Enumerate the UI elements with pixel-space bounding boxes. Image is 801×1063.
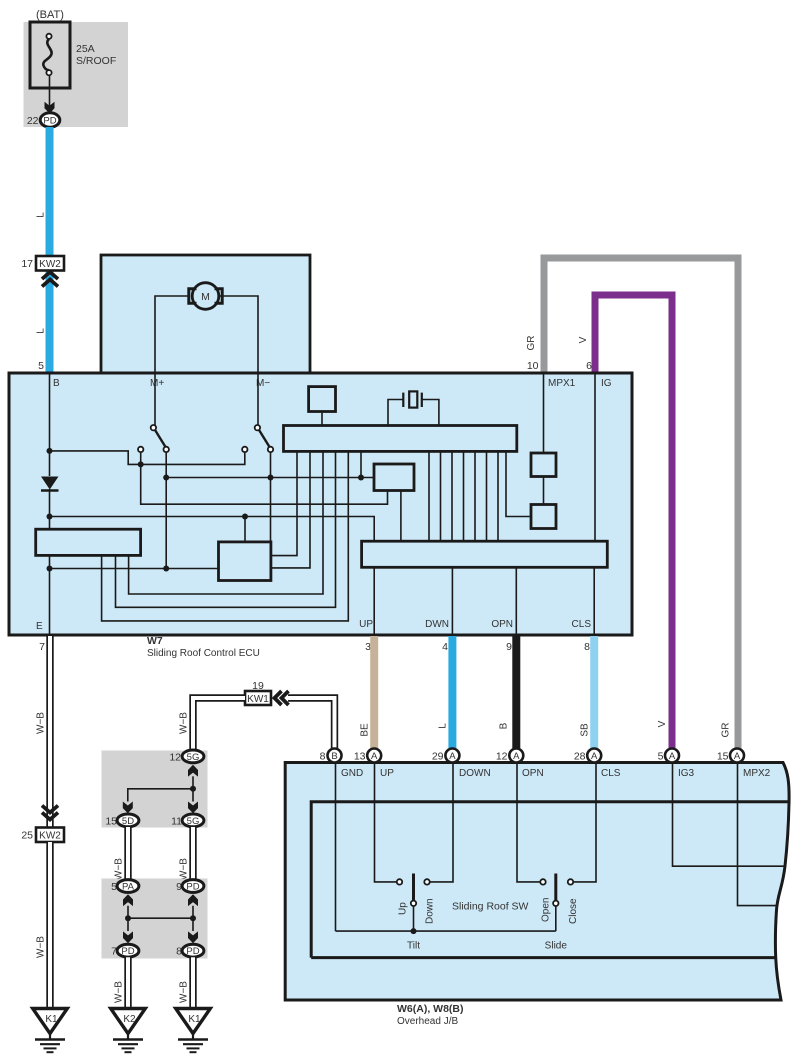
svg-text:W−B: W−B [114,858,125,880]
svg-text:B: B [499,722,510,729]
switch Slide (Open/Close) [540,874,573,932]
wire W-B PD to ground K2 [124,957,131,1008]
svg-text:DWN: DWN [425,619,449,630]
connector 17 KW2 [21,256,64,287]
wire U2 outputs to IC U1 [271,451,297,555]
connector 9 PD [176,880,204,893]
svg-text:M: M [201,291,210,303]
svg-text:IG3: IG3 [678,768,695,779]
connector 11 5G [171,814,204,827]
wire W-B from J/B GND to KW1 [288,698,335,749]
connector 5 A IG3 [658,749,679,763]
wire sense line to U3 [166,477,374,479]
connector 12 5G [169,750,204,763]
svg-text:A: A [449,751,456,762]
wire SB (sky blue) pin 8 CLS [590,636,598,749]
svg-text:A: A [513,751,520,762]
svg-text:15: 15 [105,815,117,827]
svg-text:W6(A), W8(B): W6(A), W8(B) [397,1003,464,1015]
svg-text:B: B [331,751,337,762]
svg-text:11: 11 [171,815,182,827]
wire GR (gray) to ECU pin 10 MPX1 [544,258,738,749]
svg-text:W−B: W−B [179,858,190,880]
svg-text:Open: Open [541,898,552,922]
wire IG internal [594,375,596,542]
svg-text:Down: Down [425,898,436,924]
svg-text:25: 25 [21,830,33,842]
svg-text:GR: GR [721,723,732,738]
svg-text:Up: Up [398,902,409,915]
wire U4 staircase to IC U1 [129,451,323,594]
logic block U3 [374,464,414,491]
wire outputs UP DWN OPN CLS [374,567,594,635]
svg-text:K2: K2 [123,1014,136,1025]
output driver block U6 [362,541,608,567]
wire E internal [49,555,51,635]
connector 22 PD [27,113,60,127]
connector 15 A MPX2 [717,749,744,763]
svg-text:L: L [36,212,47,218]
svg-text:SB: SB [580,723,591,737]
svg-text:K1: K1 [45,1014,58,1025]
wire BE (beige) pin 3 UP [370,636,378,749]
MPX block U8 [531,505,556,529]
svg-text:BE: BE [360,723,371,737]
microcomputer IC U1 [284,426,517,452]
connector 8 PD [176,944,204,957]
svg-text:10: 10 [527,360,539,372]
wire GND internal [335,764,337,931]
svg-text:9: 9 [506,641,512,653]
svg-text:L: L [438,723,449,729]
svg-text:25A: 25A [76,43,95,55]
svg-text:OPN: OPN [522,768,544,779]
wire motor leads [155,296,190,373]
svg-text:KW2: KW2 [39,259,61,270]
wire switch common to GND [336,930,556,932]
connector 19 KW1 [245,680,289,705]
J/B inner unit box [311,802,788,958]
svg-text:W−B: W−B [114,981,125,1003]
svg-text:Tilt: Tilt [407,941,420,952]
op ECU W7 Sliding Roof Control ECU box [9,373,632,635]
svg-text:A: A [591,751,598,762]
svg-text:UP: UP [380,768,394,779]
svg-text:W−B: W−B [36,712,47,734]
svg-text:W−B: W−B [179,981,190,1003]
svg-text:PD: PD [121,946,134,957]
svg-text:5D: 5D [122,816,134,827]
svg-text:Sliding Roof Control ECU: Sliding Roof Control ECU [147,648,260,659]
wire V (violet) to ECU pin 6 IG [595,295,672,749]
wire E bus to driver U2 [50,568,219,570]
connector 12 A OPN [496,749,523,763]
svg-text:GR: GR [526,336,537,351]
svg-text:5: 5 [38,360,44,372]
svg-text:V: V [657,720,668,727]
svg-text:Close: Close [568,898,579,924]
wire OPN internal [517,764,540,882]
svg-text:M+: M+ [150,378,164,389]
svg-text:5G: 5G [187,816,200,827]
svg-text:PD: PD [186,946,199,957]
wire U3 to output driver U6 [400,491,402,542]
sliding roof motor housing [101,255,310,373]
ECU pin numbers bottom [39,641,590,653]
wire UP internal [375,764,397,882]
svg-text:12: 12 [496,750,508,762]
svg-text:5G: 5G [187,752,200,763]
wire W-B 5D to PA [124,827,131,879]
wire MPX2 internal [738,764,777,906]
diode D1 [41,477,59,490]
ECU terminal labels [36,378,612,632]
svg-text:W7: W7 [147,635,163,647]
connector 7 PD [111,944,139,957]
svg-text:CLS: CLS [572,619,592,630]
svg-text:(BAT): (BAT) [36,9,64,21]
svg-text:GND: GND [341,768,363,779]
wire W-B from ECU pin 7 E [46,636,53,827]
wire W-B to ground K1 [46,842,53,1009]
svg-text:PD: PD [186,881,199,892]
svg-text:4: 4 [442,641,448,653]
svg-text:28: 28 [574,750,586,762]
MPX block U7 [531,453,556,477]
wire splice 2 [127,906,129,931]
fuse 25A S/ROOF [30,22,116,88]
connector 15 5D [105,814,139,827]
relay contact M+ [154,373,156,425]
wire W-B KW1 to connector 12 5G [193,698,245,750]
wire B internal bus [49,373,51,476]
svg-text:DOWN: DOWN [459,768,491,779]
crystal X1 [388,391,439,425]
svg-text:V: V [578,336,589,343]
svg-text:5: 5 [658,750,664,762]
connector 5 PA [111,880,139,893]
junction block gray box 1 [102,751,208,828]
switch Tilt (Up/Down) [397,874,430,932]
svg-text:A: A [734,751,741,762]
svg-text:8: 8 [584,641,590,653]
svg-text:17: 17 [21,258,33,270]
connector 13 A UP [354,749,381,763]
wire B (black) pin 9 OPN [512,636,520,749]
wire W-B 5G to PD [189,827,196,879]
wire B to driver U2 [50,517,375,542]
wire splice [192,776,194,801]
wire U1 to MPX block [506,451,531,516]
switch labels [398,898,580,952]
relay coil block U4 [36,529,141,555]
fuse block gray background [24,22,129,127]
svg-text:OPN: OPN [491,619,513,630]
wire fuse to connector 22 PD [49,76,51,108]
Overhead J/B box W6(A) W8(B) [285,763,789,1001]
svg-text:KW1: KW1 [247,694,269,705]
wire IG3 internal [673,764,787,866]
svg-text:KW2: KW2 [39,831,61,842]
wire W-B PD to ground K1 [189,957,196,1008]
svg-text:15: 15 [717,750,729,762]
connector 25 KW2 [21,806,64,843]
svg-text:12: 12 [169,751,181,763]
connector 28 A CLS [574,749,601,763]
svg-text:IG: IG [601,378,612,389]
svg-text:MPX1: MPX1 [548,378,576,389]
svg-text:B: B [53,378,60,389]
svg-text:Sliding Roof SW: Sliding Roof SW [452,901,529,913]
svg-text:K1: K1 [188,1014,201,1025]
junction block gray box 2 [102,879,208,959]
svg-text:W−B: W−B [179,712,190,734]
J/B terminal labels [341,768,771,779]
svg-text:L: L [36,328,47,334]
ground K1 left [33,1009,68,1034]
relay contact M- [257,373,259,425]
svg-text:Slide: Slide [545,941,568,952]
svg-text:Overhead J/B: Overhead J/B [397,1016,458,1027]
connector 29 A DOWN [432,749,460,763]
svg-text:8: 8 [320,750,326,762]
svg-text:6: 6 [586,360,592,372]
wire M+ contact to driver [165,452,167,569]
motor M [189,283,222,310]
component block U5 [309,387,336,412]
ground K2 [111,1009,146,1034]
svg-text:W−B: W−B [36,936,47,958]
wire CLS internal [573,764,596,882]
svg-text:7: 7 [39,641,45,653]
wire left contact to U3 [141,464,388,504]
driver block U2 [219,542,271,581]
svg-text:UP: UP [359,619,373,630]
wire U1 to U6 fan [429,451,498,541]
ground K1 right [176,1009,211,1034]
wire DOWN internal [430,764,453,882]
wire B branch to relay contacts [50,451,245,465]
svg-text:29: 29 [432,750,444,762]
wire L (blue) fuse to ECU pin 5 [46,127,54,373]
svg-text:CLS: CLS [601,768,621,779]
connector 8 B GND [320,749,342,763]
svg-text:A: A [669,751,676,762]
svg-text:PD: PD [43,115,56,126]
wire MPX1 internal [543,375,545,454]
svg-text:S/ROOF: S/ROOF [76,55,116,67]
wire L (blue) pin 4 DOWN [448,636,456,749]
wire M- contact to driver [270,452,272,542]
svg-text:E: E [36,621,43,632]
svg-text:PA: PA [122,881,135,892]
svg-text:MPX2: MPX2 [743,768,771,779]
svg-text:13: 13 [354,750,366,762]
svg-text:A: A [371,751,378,762]
svg-text:22: 22 [27,115,39,127]
